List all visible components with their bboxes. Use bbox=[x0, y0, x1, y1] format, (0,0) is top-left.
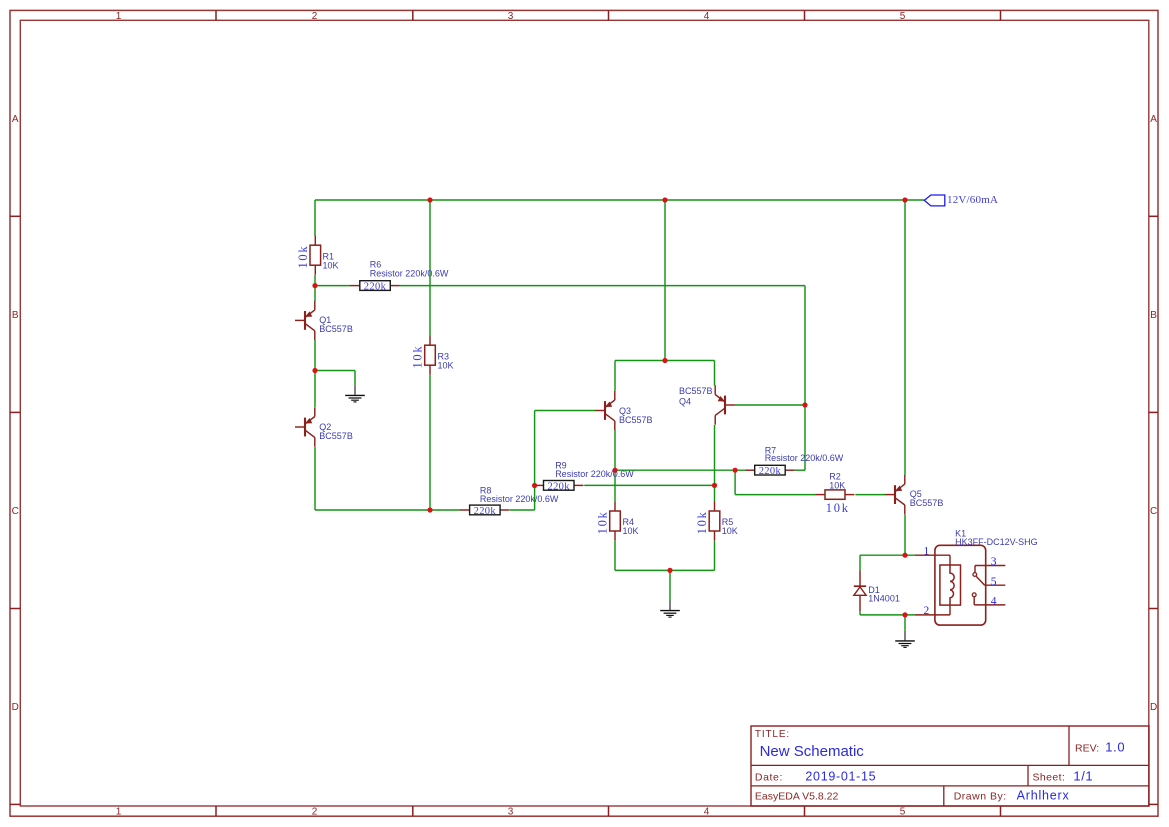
svg-text:10K: 10K bbox=[623, 526, 639, 536]
svg-text:BC557B: BC557B bbox=[679, 386, 713, 396]
svg-text:BC557B: BC557B bbox=[319, 431, 353, 441]
svg-text:HK3FF-DC12V-SHG: HK3FF-DC12V-SHG bbox=[955, 537, 1038, 547]
svg-text:1: 1 bbox=[923, 545, 929, 557]
svg-text:2: 2 bbox=[923, 605, 929, 617]
svg-text:10k: 10k bbox=[410, 345, 424, 369]
svg-text:BC557B: BC557B bbox=[319, 324, 353, 334]
svg-text:4: 4 bbox=[991, 596, 997, 608]
svg-text:A: A bbox=[12, 114, 19, 125]
svg-text:220k: 220k bbox=[474, 506, 497, 517]
svg-text:Arhlherx: Arhlherx bbox=[1017, 788, 1070, 802]
svg-text:Sheet:: Sheet: bbox=[1033, 772, 1066, 784]
svg-text:1N4001: 1N4001 bbox=[868, 593, 900, 603]
svg-text:2: 2 bbox=[312, 11, 318, 22]
svg-text:5: 5 bbox=[991, 576, 997, 588]
svg-text:220k: 220k bbox=[547, 481, 570, 492]
svg-text:5: 5 bbox=[900, 807, 906, 818]
svg-text:1.0: 1.0 bbox=[1105, 739, 1125, 754]
svg-text:Date:: Date: bbox=[755, 772, 783, 784]
svg-text:B: B bbox=[12, 310, 19, 321]
svg-text:10k: 10k bbox=[695, 510, 709, 534]
svg-text:Resistor 220k/0.6W: Resistor 220k/0.6W bbox=[370, 268, 449, 278]
svg-text:Drawn By:: Drawn By: bbox=[954, 791, 1007, 803]
svg-text:3: 3 bbox=[508, 11, 514, 22]
svg-text:BC557B: BC557B bbox=[910, 498, 944, 508]
svg-text:D: D bbox=[1150, 702, 1157, 713]
svg-text:Resistor 220k/0.6W: Resistor 220k/0.6W bbox=[480, 494, 559, 504]
svg-text:Q4: Q4 bbox=[679, 396, 691, 406]
svg-text:10k: 10k bbox=[296, 245, 310, 269]
svg-text:New Schematic: New Schematic bbox=[760, 743, 865, 760]
svg-text:4: 4 bbox=[704, 11, 710, 22]
svg-text:BC557B: BC557B bbox=[619, 415, 653, 425]
svg-text:10k: 10k bbox=[596, 510, 610, 534]
svg-text:10k: 10k bbox=[826, 501, 850, 515]
svg-text:10K: 10K bbox=[829, 480, 845, 490]
svg-text:1: 1 bbox=[116, 807, 122, 818]
svg-text:10K: 10K bbox=[722, 526, 738, 536]
svg-text:5: 5 bbox=[900, 11, 906, 22]
svg-text:Resistor 220k/0.6W: Resistor 220k/0.6W bbox=[765, 453, 844, 463]
svg-text:B: B bbox=[1150, 310, 1157, 321]
svg-text:220k: 220k bbox=[759, 466, 782, 477]
svg-text:4: 4 bbox=[704, 807, 710, 818]
svg-text:D: D bbox=[12, 702, 19, 713]
svg-text:1/1: 1/1 bbox=[1073, 769, 1093, 784]
svg-text:C: C bbox=[1150, 506, 1157, 517]
svg-text:10K: 10K bbox=[438, 360, 454, 370]
svg-text:220k: 220k bbox=[364, 282, 387, 293]
svg-text:3: 3 bbox=[991, 556, 997, 568]
svg-text:A: A bbox=[1150, 114, 1157, 125]
svg-text:2: 2 bbox=[312, 807, 318, 818]
svg-text:10K: 10K bbox=[323, 260, 339, 270]
svg-text:REV:: REV: bbox=[1075, 742, 1099, 754]
svg-text:C: C bbox=[12, 506, 19, 517]
svg-text:2019-01-15: 2019-01-15 bbox=[805, 769, 876, 783]
svg-text:3: 3 bbox=[508, 807, 514, 818]
svg-text:12V/60mA: 12V/60mA bbox=[947, 194, 998, 206]
svg-text:TITLE:: TITLE: bbox=[755, 729, 790, 740]
svg-text:EasyEDA V5.8.22: EasyEDA V5.8.22 bbox=[755, 791, 839, 803]
svg-text:Resistor 220k/0.6W: Resistor 220k/0.6W bbox=[555, 469, 634, 479]
svg-text:1: 1 bbox=[116, 11, 122, 22]
